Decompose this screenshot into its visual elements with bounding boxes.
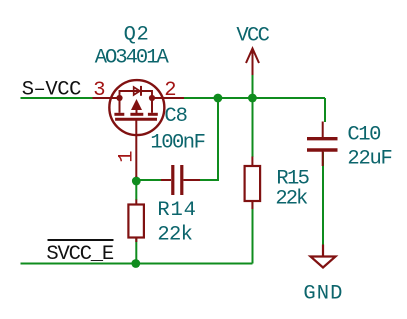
Q2 body diode cathode bar (140, 86, 142, 96)
svg-text:1: 1 (116, 150, 139, 162)
Q2 gate plate (115, 118, 157, 121)
svg-text:22k: 22k (275, 188, 308, 211)
transistor Q2 body circle (109, 80, 164, 135)
wire to R15 top (252, 98, 254, 157)
svg-text:100nF: 100nF (150, 131, 204, 154)
svg-text:22uF: 22uF (347, 147, 391, 170)
Q2 substrate arrow (131, 99, 142, 110)
svg-text:GND: GND (303, 283, 343, 306)
wire to C10 top (324, 98, 326, 122)
wire C10 bottom to GND (322, 152, 324, 245)
power VCC symbol (246, 49, 259, 76)
svg-text:C10: C10 (347, 123, 381, 146)
Q2 pin 2 line (152, 97, 184, 99)
label SVCC_E overline (48, 239, 114, 241)
wire R15 bottom (252, 201, 254, 264)
svg-text:VCC: VCC (236, 24, 269, 47)
Q2 channel bar middle (130, 113, 143, 116)
wire C8 left to node (136, 179, 161, 181)
junction node SVCC_E (131, 259, 140, 268)
Q2 body diode triangle (134, 87, 140, 95)
Q2 body-diode link (120, 91, 153, 98)
wire S-VCC to Q2 pin 3 (21, 97, 93, 99)
Q2 source dot (116, 95, 122, 101)
svg-text:R14: R14 (157, 199, 196, 222)
wire gate node down to R14 (135, 176, 137, 200)
Q2 arrow stem (136, 109, 138, 114)
wire VCC drop (252, 74, 254, 98)
svg-text:S–VCC: S–VCC (22, 78, 81, 101)
junction node gate (132, 177, 141, 186)
ground GND symbol (311, 245, 336, 268)
svg-text:3: 3 (93, 79, 105, 102)
wire top rail drain (184, 97, 325, 99)
Q2 source vertical (119, 98, 121, 113)
Q2 pin 3 line (93, 97, 120, 99)
svg-text:22k: 22k (157, 224, 192, 247)
junction node drain-VCC (248, 94, 257, 103)
svg-text:Q2: Q2 (124, 23, 150, 46)
capacitor C8 (161, 165, 200, 195)
wire bottom rail SVCC_E (21, 263, 253, 265)
Q2 pin 1 line (135, 119, 137, 177)
Q2 channel bar right (148, 113, 158, 116)
svg-text:AO3401A: AO3401A (95, 47, 170, 70)
Q2 drain vertical (151, 98, 153, 113)
wire R14 bottom (135, 238, 137, 264)
wire C8 right branch (200, 98, 218, 180)
capacitor C10 (307, 122, 338, 167)
junction node drain-C8 (214, 94, 223, 103)
Q2 channel bar left (114, 113, 124, 116)
svg-text:2: 2 (164, 79, 176, 102)
Q2 drain dot (149, 95, 155, 101)
svg-text:SVCC_E: SVCC_E (46, 243, 114, 266)
resistor R14 (128, 200, 144, 243)
resistor R15 (245, 157, 261, 210)
svg-text:C8: C8 (164, 105, 186, 128)
